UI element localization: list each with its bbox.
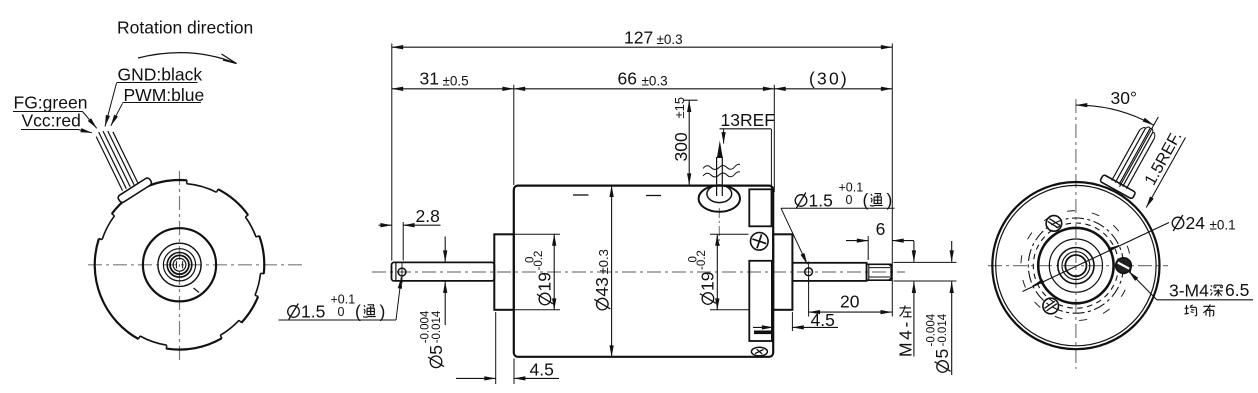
svg-text:±15: ±15 (672, 97, 687, 119)
svg-text:66: 66 (618, 69, 637, 89)
svg-text:FG:green: FG:green (14, 93, 88, 113)
svg-text:): ) (380, 302, 386, 322)
svg-text:±0.3: ±0.3 (642, 73, 668, 88)
svg-text:43: 43 (592, 277, 612, 296)
svg-text:M4-: M4- (896, 319, 916, 357)
svg-text:1.5: 1.5 (301, 302, 325, 322)
svg-text:Vcc:red: Vcc:red (22, 111, 81, 131)
svg-text:-0.014: -0.014 (431, 310, 443, 343)
svg-text:31: 31 (420, 69, 439, 89)
svg-text:-0.004: -0.004 (926, 313, 938, 346)
svg-text:13REF: 13REF (721, 110, 775, 130)
svg-text:±0.3: ±0.3 (596, 249, 611, 274)
svg-text:19: 19 (535, 272, 555, 291)
svg-text:30°: 30° (1111, 88, 1137, 108)
svg-text:0: 0 (338, 305, 345, 319)
svg-text:±0.3: ±0.3 (657, 32, 683, 47)
svg-text:-0.2: -0.2 (696, 250, 708, 270)
svg-text:): ) (887, 190, 893, 210)
svg-text:-0.2: -0.2 (533, 251, 545, 271)
svg-text:19: 19 (698, 272, 718, 291)
svg-text:±0.1: ±0.1 (1210, 218, 1236, 233)
svg-text:-0.014: -0.014 (937, 313, 949, 346)
svg-text:Rotation direction: Rotation direction (117, 18, 253, 38)
svg-text:PWM:blue: PWM:blue (124, 85, 205, 105)
svg-text:4.5: 4.5 (530, 360, 554, 380)
svg-text:GND:black: GND:black (118, 65, 203, 85)
svg-text:300: 300 (671, 132, 691, 161)
svg-text:-0.004: -0.004 (419, 310, 431, 343)
svg-text:5: 5 (426, 345, 446, 355)
svg-text:2.8: 2.8 (416, 206, 440, 226)
svg-text:127: 127 (624, 28, 653, 48)
svg-text:6: 6 (876, 219, 886, 239)
svg-text:(30): (30) (809, 68, 849, 88)
svg-text:24: 24 (1186, 213, 1206, 233)
svg-text:(: ( (355, 302, 361, 322)
svg-text:1.5: 1.5 (809, 191, 833, 211)
svg-text:6.5: 6.5 (1225, 280, 1249, 300)
svg-text:(: ( (863, 190, 869, 210)
svg-text:4.5: 4.5 (811, 310, 835, 330)
svg-text:±0.5: ±0.5 (443, 73, 469, 88)
svg-text:5: 5 (932, 349, 952, 359)
svg-text:0: 0 (846, 193, 853, 207)
svg-text:3-M4: 3-M4 (1169, 281, 1209, 301)
svg-text:20: 20 (840, 292, 860, 312)
